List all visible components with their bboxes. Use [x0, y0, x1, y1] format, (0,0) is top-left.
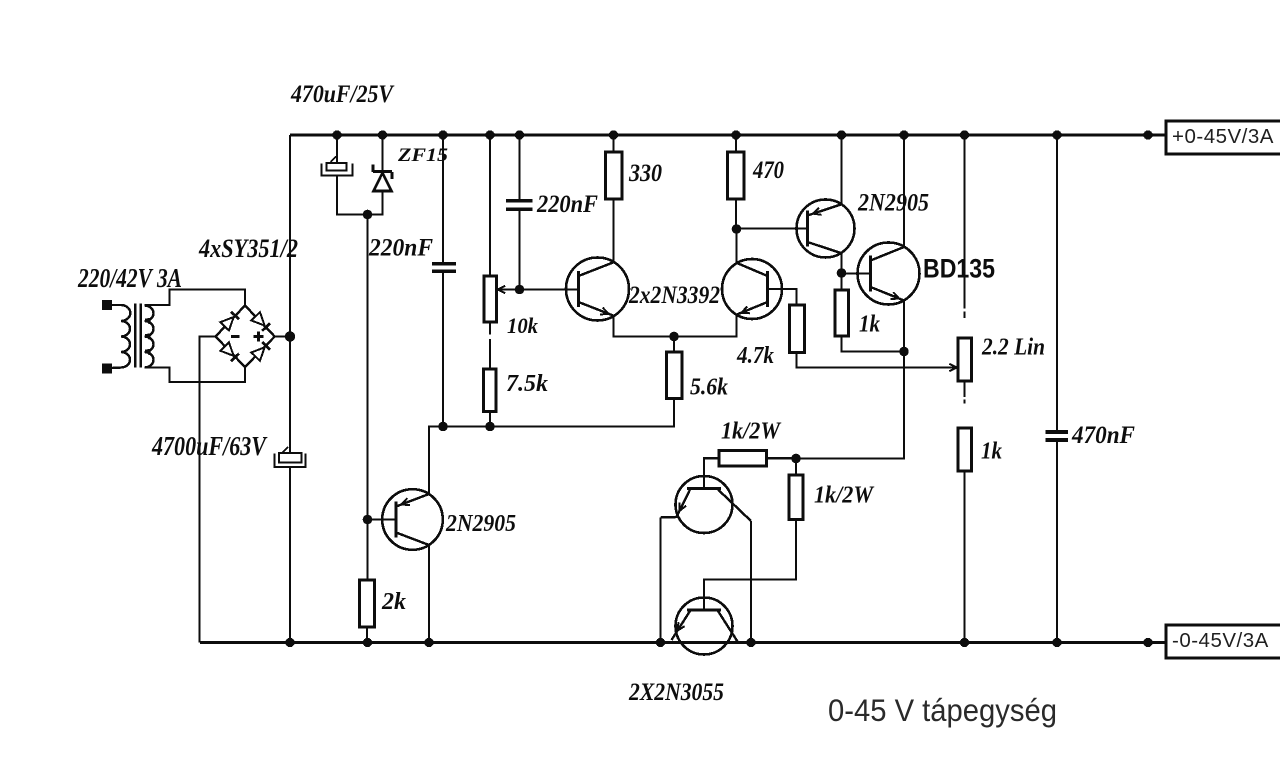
svg-text:220nF: 220nF	[536, 191, 598, 218]
wire: reference node down to Q3 base	[366, 215, 368, 520]
wire: node to Q5 base	[842, 272, 871, 274]
junction dot: R470 on top rail	[731, 130, 740, 139]
wire: 5.6k down and left (lower junction line)	[429, 399, 674, 495]
transistor Q3 2N2905 (PNP)	[368, 489, 443, 550]
bridge plus sign	[254, 332, 264, 342]
wire: Q4 emitter to top rail	[840, 135, 842, 204]
svg-text:2x2N3392: 2x2N3392	[628, 282, 720, 309]
transformer T1 220/42V 3A	[102, 300, 154, 374]
wire: 1k/2W vertical top lead	[795, 459, 797, 476]
svg-text:330: 330	[628, 160, 662, 187]
wire: 1k bottom to Q5 emitter line	[842, 336, 905, 352]
svg-text:10k: 10k	[507, 313, 538, 338]
terminal box -0-45V/3A	[1166, 625, 1280, 658]
bridge minus sign	[231, 335, 240, 338]
resistor R 330	[606, 152, 623, 199]
wire: top rail to + terminal box	[1148, 134, 1166, 136]
wire: Q4 collector down to node	[840, 253, 842, 273]
wire: bridge + output up to top rail	[275, 135, 290, 337]
svg-text:0-45 V tápegység: 0-45 V tápegység	[828, 692, 1057, 728]
resistor R 4.7k	[790, 305, 805, 353]
wire: Q6 collector to bottom rail	[750, 521, 752, 643]
capacitor C1 4700uF/63V (electrolytic)	[275, 337, 306, 643]
junction node: Q2 collector / Q4 base	[732, 224, 742, 234]
wire: Q6 emitter to bottom rail	[659, 518, 661, 643]
transistor Q4 2N2905 (PNP)	[797, 200, 855, 258]
wire: Q5 collector to top rail	[903, 135, 905, 247]
junction node: C2/zener/reference	[363, 210, 373, 220]
resistor R 1k (output divider)	[958, 428, 972, 471]
junction node: Q5 emitter / 1k	[899, 347, 909, 357]
svg-text:470: 470	[752, 157, 784, 184]
capacitor C3 220nF	[432, 262, 456, 273]
wire: 1k/2W right lead	[767, 457, 797, 459]
wire: secondary bottom to bridge bottom vertex	[145, 367, 246, 382]
svg-text:7.5k: 7.5k	[506, 371, 548, 397]
junction dot: C3 on top rail	[438, 130, 447, 139]
wire: RP1 wiper to node	[500, 288, 520, 290]
transistor Q2 2N3392 (NPN)	[722, 259, 782, 319]
svg-text:2N2905: 2N2905	[857, 190, 929, 217]
diode D3 (bridge bottom-left)	[220, 342, 239, 361]
wire: top rail to C5	[1056, 135, 1058, 430]
resistor R 2k	[360, 580, 375, 627]
wire: bridge - output down to bottom rail	[200, 337, 216, 643]
wire: node to 1k	[840, 273, 842, 290]
junction dot: Q6 emitter on bottom rail	[656, 638, 665, 647]
junction node: Q3 base / 2k top	[363, 515, 373, 525]
wire: RP2 bottom dashed lead	[963, 381, 965, 404]
resistor R 1k/2W (horizontal)	[719, 451, 767, 467]
wire: C5 to bottom rail	[1056, 442, 1058, 643]
wiper arrow of RP1	[498, 286, 506, 293]
transistor Q6 2N3055 (NPN)	[661, 476, 752, 533]
junction dot: Q5 collector on top rail	[899, 130, 908, 139]
svg-text:ZF15: ZF15	[397, 145, 449, 166]
wire: C4 down to wiper node	[518, 211, 520, 290]
junction node: output base resistors	[791, 454, 801, 464]
junction dot: divider 1k on bottom rail	[960, 638, 969, 647]
capacitor C2 470uF/25V (electrolytic)	[322, 135, 368, 215]
resistor R 1k/2W (vertical)	[789, 475, 803, 520]
svg-text:1k/2W: 1k/2W	[814, 483, 875, 509]
junction node: bridge + output	[285, 331, 295, 341]
wire: bottom rail to - terminal box	[1148, 641, 1166, 643]
wire: top rail to R470	[735, 135, 737, 152]
junction node: emitter bus / 5.6k	[669, 332, 679, 342]
zener diode ZF15	[368, 135, 393, 215]
wire: base node to 2k resistor	[366, 520, 368, 581]
wire: Q1/Q2 emitter bus	[614, 315, 737, 337]
svg-text:4.7k: 4.7k	[736, 343, 774, 369]
junction dot: C2 on top rail	[332, 130, 341, 139]
wire: node to Q4 base	[737, 227, 808, 229]
wire: R470 to Q2 collector node	[735, 199, 737, 229]
wire: 1k/2W vertical bottom to Q7 base	[704, 520, 796, 611]
svg-text:470nF: 470nF	[1071, 422, 1135, 449]
wire: bottom -V rail	[200, 641, 1166, 644]
junction dot: R330 on top rail	[609, 130, 618, 139]
svg-text:5.6k: 5.6k	[690, 375, 728, 401]
junction dot: Q3 collector on bottom rail	[424, 638, 433, 647]
potentiometer RP1 10k	[484, 276, 497, 322]
junction node: C1 to bottom rail	[285, 638, 294, 647]
svg-text:4xSY351/2: 4xSY351/2	[198, 234, 298, 263]
resistor R 1k (Q5 base)	[835, 290, 849, 336]
capacitor C4 220nF	[506, 199, 533, 211]
wire: Q5 emitter down	[903, 301, 905, 352]
node: + output connection	[1143, 130, 1152, 139]
wire: Q2 base to 4.7k	[768, 289, 797, 305]
bridge rectifier ring 4xSY351/2	[216, 306, 275, 368]
diode D2 (bridge top-right)	[251, 312, 270, 331]
wire: top rail to RP2 (with dash)	[963, 135, 965, 318]
potentiometer RP2 2.2 Lin	[958, 338, 972, 381]
svg-text:470uF/25V: 470uF/25V	[290, 81, 395, 108]
wire: 2k to bottom rail	[366, 627, 368, 643]
wire: 10k to 7.5k (dashed lead)	[489, 322, 491, 369]
junction dot: C5 on top rail	[1052, 130, 1061, 139]
svg-text:1k: 1k	[981, 439, 1002, 465]
wire: node to Q1 base	[520, 288, 579, 290]
wire: secondary top to bridge top vertex	[145, 290, 246, 306]
capacitor C5 470nF	[1046, 430, 1069, 442]
wire: 1k to bottom rail	[963, 471, 965, 643]
wire: top rail to C3	[442, 135, 444, 262]
resistor R 5.6k	[667, 352, 683, 399]
svg-text:-0-45V/3A: -0-45V/3A	[1172, 629, 1269, 652]
junction dot: 10k on top rail	[485, 130, 494, 139]
wire: 1k/2W left lead to Q6 base	[704, 458, 719, 488]
wire: top rail to C4	[518, 135, 520, 199]
wire: 7.5k to junction line	[489, 412, 491, 427]
junction dot: 2k on bottom rail	[363, 638, 372, 647]
terminal box +0-45V/3A	[1166, 121, 1280, 154]
svg-text:220nF: 220nF	[368, 235, 433, 262]
svg-text:220/42V 3A: 220/42V 3A	[77, 263, 182, 293]
wire: node to 5.6k	[673, 337, 675, 353]
junction node: wiper / Q1 base	[515, 285, 525, 295]
junction dot: C5 on bottom rail	[1052, 638, 1061, 647]
svg-text:2.2 Lin: 2.2 Lin	[981, 335, 1045, 361]
wire: C3 down to lower junction line	[442, 273, 444, 426]
wire: top rail to 10k pot	[489, 135, 491, 276]
svg-text:1k/2W: 1k/2W	[721, 419, 782, 445]
wire: top +V rail	[290, 134, 1166, 137]
transistor Q5 BD135 (NPN)	[858, 243, 920, 305]
svg-text:2N2905: 2N2905	[445, 511, 516, 537]
resistor R 470	[728, 152, 745, 199]
junction dot: C3 on junction line	[438, 422, 448, 432]
transistor Q7 2N3055 (NPN)	[672, 598, 738, 655]
junction dot: Q6 collector on bottom rail	[746, 638, 755, 647]
wiper arrow of RP2	[949, 364, 957, 371]
junction dot: Q4 emitter on top rail	[837, 130, 846, 139]
diode D4 (bridge bottom-right)	[251, 342, 270, 361]
svg-text:1k: 1k	[859, 312, 880, 338]
svg-text:+0-45V/3A: +0-45V/3A	[1172, 125, 1274, 148]
resistor R 7.5k	[484, 369, 497, 412]
wire: Q5 emitter node down and left to output-base node	[796, 352, 904, 459]
wire: top rail to R330	[612, 135, 614, 152]
wire: 4.7k to RP2 wiper	[797, 353, 956, 368]
svg-text:4700uF/63V: 4700uF/63V	[151, 431, 267, 461]
node: - output connection	[1143, 638, 1152, 647]
junction node: Q4 collector / Q5 base / 1k	[837, 268, 847, 278]
svg-text:2k: 2k	[381, 589, 406, 615]
wire: Q3 collector to bottom rail	[428, 545, 430, 643]
junction dot: RP2 on top rail	[960, 130, 969, 139]
junction dot: zener on top rail	[378, 130, 387, 139]
diode D1 (bridge top-left)	[220, 311, 239, 330]
svg-text:BD135: BD135	[923, 254, 995, 284]
wire: R330 to Q1 collector	[612, 199, 614, 262]
transistor Q1 2N3392 (NPN)	[566, 258, 629, 321]
wire: node down to Q2 collector	[735, 229, 737, 263]
junction dot: 7.5k on junction line	[485, 422, 495, 432]
junction dot: C4 on top rail	[515, 130, 524, 139]
svg-text:2X2N3055: 2X2N3055	[628, 679, 724, 706]
